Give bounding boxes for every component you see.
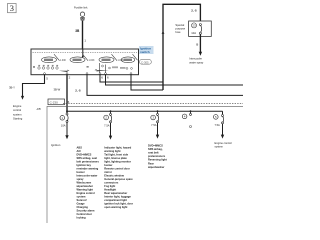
svg-text:Intercooler water: Intercooler water — [77, 174, 98, 178]
wire code 3B-Y — [9, 85, 15, 89]
svg-text:1.00K: 1.00K — [60, 60, 66, 62]
svg-text:Central door: Central door — [77, 212, 92, 216]
node: Engine control system Starting — [13, 104, 23, 121]
svg-text:A/C: A/C — [77, 149, 82, 153]
label: Fusible link — [74, 5, 88, 9]
connector label C-305 — [140, 60, 152, 65]
fuse 1 — [60, 113, 68, 128]
fusible link FL1 symbol — [80, 12, 85, 21]
wire: pin 6 to riser — [100, 75, 163, 82]
svg-text:Remote control door: Remote control door — [104, 167, 130, 171]
wire: pin B to riser — [131, 75, 163, 90]
svg-text:2L-B: 2L-B — [75, 88, 81, 92]
fuse 2 — [104, 110, 112, 127]
svg-text:Security alarm: Security alarm — [77, 209, 96, 213]
svg-text:2L-B: 2L-B — [191, 9, 197, 13]
svg-text:3: 3 — [10, 4, 14, 13]
fuse 3 — [151, 110, 159, 127]
svg-text:system: system — [215, 144, 224, 148]
svg-text:fuse: fuse — [175, 30, 181, 34]
svg-text:system: system — [77, 195, 87, 199]
bus wire in J/B — [67, 110, 223, 112]
wire: fuse 2 to lighting loads — [109, 123, 112, 140]
contact E4 — [121, 54, 137, 62]
wire: fuse 3 to loads — [156, 123, 159, 139]
svg-text:3B-Y: 3B-Y — [9, 85, 15, 89]
wire: fuse 5 to engine control system — [221, 124, 224, 139]
J/B box — [47, 106, 243, 223]
svg-text:ignition lock light, door: ignition lock light, door — [104, 202, 133, 206]
svg-text:light, lighting monitor: light, lighting monitor — [104, 160, 131, 164]
label: Special purpose fuse — [175, 23, 185, 34]
svg-text:3B: 3B — [75, 29, 80, 33]
svg-text:reminder warning: reminder warning — [77, 167, 99, 171]
blue link label: Ignition switch — [139, 46, 154, 54]
svg-text:compartment light: compartment light — [104, 198, 127, 202]
svg-text:7.5A: 7.5A — [214, 123, 220, 127]
dashed connector line — [63, 103, 243, 105]
special purpose fuse box — [189, 21, 212, 36]
svg-text:belt pretensioners: belt pretensioners — [77, 160, 100, 164]
svg-text:7.5A: 7.5A — [151, 123, 157, 127]
wire code 3B-W — [54, 87, 61, 91]
svg-text:Starting: Starting — [13, 117, 23, 121]
svg-text:3B-W: 3B-W — [54, 87, 61, 91]
svg-text:spray: spray — [77, 177, 84, 181]
internal dashed line — [33, 52, 138, 54]
svg-text:Electric window: Electric window — [104, 174, 125, 178]
svg-text:Indicator light, hazard: Indicator light, hazard — [104, 146, 131, 150]
svg-text:10A: 10A — [191, 31, 196, 35]
svg-text:Fusible link: Fusible link — [74, 5, 88, 9]
svg-text:connectors: connectors — [104, 181, 119, 185]
svg-text:Rear: Rear — [148, 161, 154, 165]
svg-text:seat belt: seat belt — [148, 151, 159, 155]
svg-text:open warning light: open warning light — [104, 205, 127, 209]
wire: pin 5 to engine control/starting — [21, 75, 45, 100]
wire: riser to special purpose fuse — [162, 4, 201, 90]
svg-text:Sunroof: Sunroof — [77, 198, 87, 202]
svg-text:General-purpose spare: General-purpose spare — [104, 177, 133, 181]
svg-text:Interior light, luggage: Interior light, luggage — [104, 195, 131, 199]
node: Engine control system (right) — [215, 141, 233, 148]
wire code label 3B — [75, 29, 80, 33]
svg-text:C-230: C-230 — [50, 101, 59, 105]
svg-text:ABS: ABS — [77, 146, 83, 150]
svg-text:Reversing light: Reversing light — [148, 158, 167, 162]
pin 6 label — [101, 76, 103, 80]
node: Intercooler water spray — [189, 56, 204, 64]
svg-text:mirror: mirror — [104, 170, 112, 174]
svg-text:light, license plate: light, license plate — [104, 156, 127, 160]
svg-text:warning light: warning light — [104, 149, 120, 153]
svg-text:Fog light: Fog light — [104, 184, 115, 188]
svg-text:Headlight: Headlight — [104, 188, 116, 192]
wire code B — [196, 42, 198, 46]
pin terminals on box bottom — [44, 73, 132, 75]
wire: fuse 1 to ignition loads — [65, 122, 68, 139]
wire code 2L-B top — [191, 9, 197, 13]
ignition switch box U1 — [31, 49, 139, 75]
svg-text:7.5A: 7.5A — [104, 123, 110, 127]
svg-text:wiper/washer: wiper/washer — [148, 165, 164, 169]
svg-text:Tail light, front side: Tail light, front side — [104, 153, 128, 157]
pin 6b label — [107, 76, 109, 80]
load list for fuse 3 — [148, 143, 167, 169]
svg-text:Windscreen: Windscreen — [77, 181, 92, 185]
svg-text:23: 23 — [192, 24, 196, 28]
pin 1 label — [84, 39, 86, 43]
svg-text:system: system — [13, 112, 22, 116]
svg-text:10A: 10A — [61, 124, 66, 128]
fuse element on wire — [199, 24, 201, 35]
svg-text:Engine control: Engine control — [77, 191, 95, 195]
svg-text:J/B: J/B — [36, 107, 40, 111]
svg-text:switch: switch — [140, 50, 150, 54]
connector label C-230 — [48, 99, 65, 105]
pin 2 label — [69, 76, 71, 80]
fuse 4 spare — [182, 110, 191, 127]
contact E3 — [99, 54, 124, 62]
svg-text:Intercooler: Intercooler — [189, 56, 202, 60]
svg-text:water spray: water spray — [189, 60, 204, 64]
wire code 2L-B — [75, 88, 81, 92]
wire: pin to right rail lower — [87, 75, 243, 96]
svg-text:DVD=MMCS: DVD=MMCS — [148, 143, 163, 147]
svg-text:Charging: Charging — [77, 205, 89, 209]
load list for fuse 1 — [77, 146, 100, 220]
svg-text:SRS airbag,: SRS airbag, — [148, 147, 163, 151]
switch bottom contact row — [33, 65, 109, 72]
contact E2 — [70, 54, 95, 62]
page number box 3 — [8, 4, 17, 14]
contact E1 — [42, 54, 67, 62]
svg-text:C-305: C-305 — [141, 60, 149, 64]
svg-text:Ignition key: Ignition key — [77, 163, 92, 167]
svg-text:Warning light: Warning light — [77, 188, 94, 192]
switch internal stubs right — [87, 63, 133, 73]
svg-text:SRS airbag, seat: SRS airbag, seat — [77, 156, 98, 160]
wire: fuse to intercooler water spray — [199, 34, 202, 56]
internal entry wire and junction — [82, 49, 84, 57]
fuse 5 — [214, 111, 224, 127]
svg-text:locking: locking — [77, 216, 86, 220]
pin 5 label — [46, 76, 48, 80]
svg-text:control: control — [13, 108, 21, 112]
pin 6 label at connector — [68, 100, 70, 104]
label Ignition under fuse 1 — [51, 143, 61, 147]
svg-text:buzzer: buzzer — [104, 163, 112, 167]
svg-text:pretensioners: pretensioners — [148, 154, 166, 158]
svg-text:DVD=MMCS: DVD=MMCS — [77, 153, 92, 157]
svg-text:wiper/washer: wiper/washer — [77, 184, 93, 188]
wire from fusible link to ignition switch — [82, 21, 84, 49]
svg-text:Gauge: Gauge — [77, 202, 86, 206]
svg-text:Ignition: Ignition — [51, 143, 61, 147]
load list for fuse 2 — [104, 146, 133, 210]
label J/B — [36, 107, 40, 111]
svg-text:Rear wiper/washer: Rear wiper/washer — [104, 191, 127, 195]
wire: pin 2 main feed to J/B fuse 1 — [66, 75, 68, 114]
svg-text:Engine: Engine — [13, 104, 22, 108]
svg-text:buzzer: buzzer — [77, 170, 85, 174]
svg-text:1.00K: 1.00K — [89, 60, 95, 62]
wire: pin 6b to right rail — [106, 75, 244, 85]
svg-text:B: B — [196, 42, 198, 46]
